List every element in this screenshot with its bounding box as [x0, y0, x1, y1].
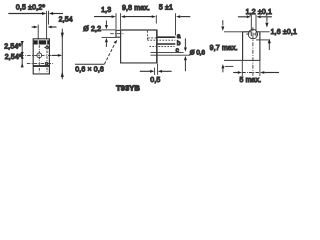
leader arrowhead — [114, 40, 118, 44]
tail right — [264, 72, 279, 74]
arrowhead right-pointing — [42, 12, 46, 15]
svg-text:Ø 0,6: Ø 0,6 — [190, 50, 206, 57]
screw horizontal crosshair — [246, 33, 259, 35]
arrowhead right at shaft tip — [112, 15, 116, 18]
notch extension right — [255, 15, 257, 31]
dim 9,7 lower shaft — [222, 68, 224, 72]
extension line outer from body corner — [157, 64, 159, 75]
svg-text:1,3: 1,3 — [101, 7, 111, 14]
tail left — [233, 72, 238, 74]
dia 0,6 upper arrow shaft — [184, 38, 186, 47]
arrowhead right — [150, 70, 154, 73]
dim 9,7 arrowhead up — [221, 64, 224, 68]
dimension 0,5 +-0,2 top: left line — [8, 13, 42, 15]
body right edge emphasized — [156, 30, 158, 63]
svg-text:2,54*: 2,54* — [5, 54, 22, 61]
pin c top extension — [174, 51, 183, 53]
dim 9,7 arrowhead down — [221, 26, 224, 31]
dim 1,6 upper arrow shaft — [266, 17, 268, 22]
arrowhead left-pointing — [49, 12, 53, 15]
extension line 1,3 left — [115, 13, 117, 29]
pin c bottom extension — [174, 54, 190, 56]
dim 1,2 tail left — [238, 16, 247, 18]
pin 1 centerline — [44, 46, 50, 48]
svg-text:1,6 ±0,1: 1,6 ±0,1 — [271, 29, 297, 36]
pin column centerline right — [46, 45, 48, 72]
arrowhead right — [247, 15, 251, 18]
thick flange line — [33, 65, 49, 67]
arrowhead up at flange bottom — [61, 71, 64, 77]
svg-text:5 ±1: 5 ±1 — [159, 5, 173, 12]
pin c bottom edge — [151, 54, 175, 56]
pin 2 horizontal dash-dot centerline — [20, 54, 52, 56]
notch wall left — [250, 32, 252, 36]
hidden pin b lower dashed — [149, 45, 174, 47]
screw axis vertical dash-dot — [252, 27, 254, 75]
dia 2,2 upper arrow shaft — [105, 20, 107, 24]
pin 3 circle — [45, 62, 48, 65]
arrowhead right at dim line — [58, 54, 62, 57]
slot bottom extension to right — [256, 39, 270, 41]
dim 9,7 upper shaft — [222, 20, 224, 25]
hatch slit 2 — [46, 40, 47, 44]
svg-text:2,54*: 2,54* — [4, 43, 21, 50]
pin 2 circle — [37, 53, 42, 58]
extension line pin end — [175, 13, 177, 35]
arrowhead left — [158, 70, 162, 73]
svg-text:9,7 max.: 9,7 max. — [210, 45, 238, 52]
dim 1,6 arrowhead up — [268, 39, 271, 44]
dim line tail right — [53, 13, 63, 15]
leader from pin2 centerline to dim line — [52, 54, 61, 56]
slot top extension to right — [260, 31, 270, 33]
top extension line to left — [224, 31, 243, 33]
right vertical dimension line — [61, 29, 63, 80]
annotation 0,6 x 0,6 overline — [75, 63, 105, 65]
dim 1,6 lower arrow shaft — [268, 43, 270, 50]
svg-text:0,5: 0,5 — [150, 77, 160, 84]
hatched screw-side band — [34, 40, 49, 44]
dim 5 max extension left — [241, 60, 243, 76]
extension line pin width right — [48, 11, 50, 25]
dia 2,2 lower extension line — [102, 36, 117, 38]
svg-text:T93YB: T93YB — [116, 83, 140, 92]
pin 2 center dot — [38, 55, 39, 56]
dia 2,2 arrowhead up — [105, 38, 108, 42]
svg-text:Ø 2,2: Ø 2,2 — [83, 26, 101, 33]
hidden pin b upper dashed — [147, 39, 175, 41]
hidden line horizontal dashed in body — [148, 37, 157, 39]
arrowhead left — [260, 71, 264, 74]
pin 1 circle — [46, 46, 49, 49]
body left edge — [242, 32, 244, 61]
dim tail left — [140, 70, 151, 72]
left vertical dimension line — [21, 41, 23, 67]
body bottom edge with left extension — [224, 59, 260, 61]
body right edge — [259, 32, 261, 61]
dimension 2,54 pin stagger: tail left — [32, 26, 34, 28]
pin b — [156, 43, 175, 45]
extension line stagger left — [37, 25, 39, 40]
pin 3 horizontal dash-dot centerline — [27, 63, 54, 65]
arrowhead left — [257, 15, 261, 18]
hatch slit 1 — [38, 40, 39, 44]
arrowhead up lower span — [21, 63, 24, 67]
dia 0,6 lower arrow shaft — [184, 60, 186, 71]
body outline left view — [33, 39, 49, 74]
dim 0,5 bottom: extension line inner — [154, 68, 156, 75]
dim 5+-1 tail right — [180, 16, 190, 18]
screw shaft protrusion — [116, 30, 121, 37]
arrowhead down lower span — [21, 52, 24, 56]
arrowhead down at body top — [61, 33, 64, 39]
dia 2,2 arrowhead down — [105, 25, 108, 29]
leader dashed to pin — [104, 44, 114, 64]
dia 2,2 upper extension line — [100, 29, 116, 31]
arrowhead up upper span — [21, 55, 24, 59]
svg-text:0,5 ±0,2*: 0,5 ±0,2* — [16, 4, 45, 11]
dim tail right — [52, 26, 57, 28]
dim 5 max extension right — [259, 60, 261, 76]
body top edge left of notch — [243, 31, 252, 33]
dia 0,6 arrowhead down — [184, 47, 187, 51]
notch extension left — [250, 15, 252, 31]
notch wall right — [255, 32, 257, 36]
svg-text:9,8 max.: 9,8 max. — [122, 5, 150, 12]
svg-text:0,6 × 0,6: 0,6 × 0,6 — [75, 67, 104, 74]
dim 1,3 tail left — [94, 16, 112, 18]
body outline front view — [121, 30, 157, 63]
hidden pin edge vertical dashed in body — [146, 31, 148, 40]
arrowhead right-pointing — [34, 26, 38, 29]
arrowhead left at body corner — [121, 15, 125, 18]
dim 1,6 arrowhead down — [265, 23, 268, 28]
extension line pin width left — [46, 11, 48, 40]
extension line body right top — [155, 15, 157, 23]
arrowhead down upper span — [21, 41, 24, 45]
dia 2,2 lower arrow shaft — [105, 42, 107, 47]
shaft dash-dot centerline — [110, 33, 124, 35]
extension line body left corner — [120, 13, 122, 29]
body top edge right of notch — [256, 31, 260, 33]
dim tail right — [162, 70, 172, 72]
screw head circle — [248, 29, 257, 38]
arrowhead left-pointing — [48, 26, 52, 29]
arrowhead left at pin end — [176, 15, 180, 18]
svg-text:2,54: 2,54 — [59, 16, 73, 23]
pin c top edge — [151, 51, 175, 53]
svg-text:5 max.: 5 max. — [239, 77, 261, 84]
arrowhead right — [238, 71, 242, 74]
svg-text:1,2 ±0,1: 1,2 ±0,1 — [246, 9, 272, 16]
svg-text:b: b — [177, 40, 181, 47]
pin a — [157, 36, 176, 38]
dim 5 max line between — [242, 72, 260, 74]
arrowhead right at body right — [152, 15, 156, 18]
seating plane short extension — [225, 65, 234, 67]
dim 9,8 line with inner arrows — [125, 16, 152, 18]
dim 1,2 tail right — [261, 16, 272, 18]
dia 0,6 arrowhead up — [184, 56, 187, 60]
pin column centerline left — [38, 45, 40, 72]
